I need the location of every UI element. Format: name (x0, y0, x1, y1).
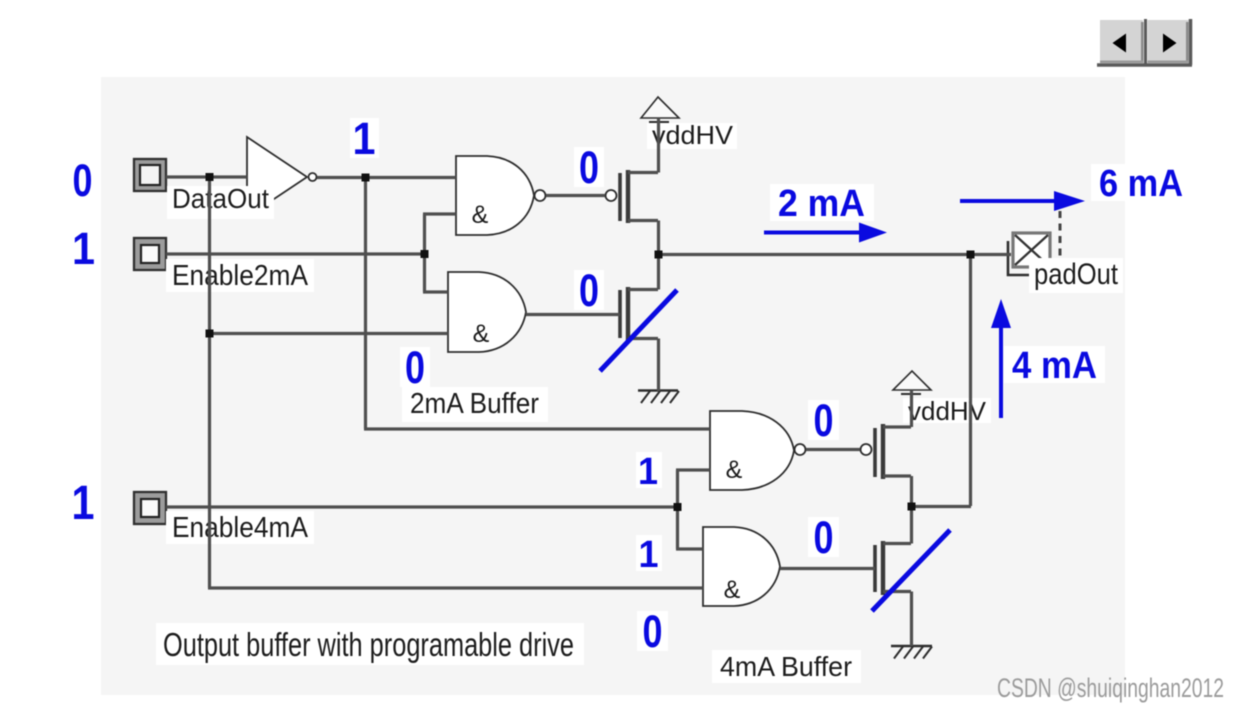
wire main output to padOut (657, 253, 1011, 256)
svg-text:0: 0 (73, 155, 93, 206)
svg-text:1: 1 (638, 451, 658, 493)
ground symbol 1 (638, 391, 679, 404)
svg-text:vddHV: vddHV (652, 120, 734, 150)
wire feed to and U5 lower input (208, 586, 703, 589)
inverter U1 (247, 137, 307, 217)
wire vertical net x209 (208, 178, 211, 589)
pmos Q3 (873, 428, 877, 477)
svg-text:2mA Buffer: 2mA Buffer (410, 388, 539, 420)
pmos Q1 gate bubble (606, 190, 617, 201)
label Enable2mA (166, 259, 314, 292)
wire data feed to nand U4 (364, 427, 710, 430)
wire vertical to 4mA node (969, 254, 972, 506)
svg-text:Enable2mA: Enable2mA (172, 260, 309, 292)
svg-text:1: 1 (353, 113, 376, 164)
svg-text:DataOut: DataOut (172, 183, 269, 214)
junction node on DataOut wire x209 (206, 173, 214, 181)
label DataOut (167, 183, 274, 219)
svg-text:&: & (726, 456, 743, 484)
junction node inverter out x365 (362, 174, 370, 182)
logic value 0 at nand U4 output (808, 395, 839, 446)
svg-text:Output buffer with programable: Output buffer with programable drive (163, 626, 574, 663)
schematic panel background (101, 77, 1125, 695)
label caption Output buffer with programamable drive (156, 623, 584, 665)
wire nand U4 output to pmos Q3 (806, 448, 860, 451)
input pad Enable2mA (134, 238, 166, 270)
label 4mA Buffer (712, 650, 861, 683)
and gate U5 (703, 527, 780, 606)
junction node Enable4mA x677 (674, 503, 682, 511)
logic value 1 at nand U4 lower input (636, 451, 662, 493)
wire vddHV1 stem (657, 118, 660, 173)
wire nand U2 lower input (423, 212, 456, 215)
wire nmos Q2 drain lead (628, 254, 659, 290)
wire inverter output to nand U2 (317, 176, 456, 179)
svg-text:vddHV: vddHV (908, 396, 987, 426)
svg-text:4mA Buffer: 4mA Buffer (720, 651, 852, 682)
wire and U3 upper input (423, 290, 448, 293)
logic value 0 at nand U2 output (574, 142, 604, 193)
junction node Enable2mA x424 (421, 250, 429, 258)
wire nand U4 lower input (676, 468, 710, 471)
vddHV supply symbol 1 (641, 97, 679, 118)
svg-text:0: 0 (579, 142, 599, 193)
wire vertical net x424 (423, 214, 426, 292)
logic value 1 at inverter output (350, 113, 379, 164)
svg-text:&: & (724, 576, 741, 604)
nav button divider (1144, 19, 1147, 66)
current arrow 2 mA (764, 223, 887, 243)
wire nmos Q4 drain lead (883, 506, 912, 544)
nmos Q2 (618, 290, 622, 338)
input pad Enable4mA (134, 492, 166, 524)
svg-text:&: & (473, 320, 490, 348)
svg-text:4 mA: 4 mA (1012, 345, 1097, 387)
enable slash on nmos Q2 (600, 290, 677, 371)
junction node 4mA output (908, 503, 916, 511)
input pad DataOut (134, 159, 166, 191)
junction node x209 and U3 feed (206, 330, 214, 338)
logic value 0 at nmos Q4 gate (808, 512, 839, 563)
wire vertical net x677 (676, 470, 679, 549)
wire pmos Q1 drain lead (628, 221, 659, 255)
current label 2 mA (770, 183, 874, 225)
label 2mA Buffer (402, 387, 548, 422)
svg-text:0: 0 (405, 342, 425, 393)
wire feed to and U3 lower input (208, 332, 448, 335)
wire nand U2 output to pmos Q1 (546, 194, 605, 197)
wire Enable4mA (166, 505, 677, 508)
svg-text:padOut: padOut (1034, 258, 1119, 291)
dashed stub above padOut (1059, 211, 1062, 258)
svg-text:1: 1 (72, 223, 95, 274)
logic value 0 below and U3 (400, 342, 430, 393)
svg-text:0: 0 (579, 265, 599, 316)
junction node at padOut branch (967, 251, 975, 259)
vddHV supply symbol 2 (893, 371, 931, 390)
nav button back (1100, 20, 1144, 63)
svg-text:CSDN @shuiqinghan2012: CSDN @shuiqinghan2012 (997, 673, 1224, 703)
svg-text:1: 1 (72, 477, 95, 530)
current arrow 6 mA (960, 191, 1085, 211)
nand gate U4 (710, 411, 794, 490)
nand gate U2 (456, 156, 534, 235)
nav button forward (1148, 20, 1189, 63)
ground symbol 2 (891, 646, 932, 659)
wire and U5 upper input (676, 547, 703, 550)
enable slash on nmos Q4 (872, 530, 950, 611)
svg-text:&: & (472, 201, 489, 229)
logic value 1 at and U5 upper input (636, 534, 662, 576)
wire DataOut pad to inverter (166, 175, 247, 178)
svg-text:2 mA: 2 mA (778, 183, 865, 225)
logic value 0 at nmos Q2 gate (574, 265, 604, 316)
inverter U1 output bubble (309, 173, 317, 181)
nav buttons shadow (1097, 19, 1192, 65)
junction node 2mA output (655, 251, 663, 259)
svg-text:Enable4mA: Enable4mA (172, 512, 309, 544)
wire and U5 output to nmos Q4 (780, 567, 875, 570)
wire vddHV2 stem (883, 390, 912, 427)
and gate U3 (448, 272, 526, 352)
label padOut (1029, 258, 1123, 293)
label Enable4mA (166, 511, 314, 544)
pmos Q1 (618, 173, 622, 221)
output pad padOut (1008, 233, 1050, 275)
svg-text:6 mA: 6 mA (1099, 163, 1183, 205)
current label 6 mA (1091, 163, 1191, 205)
label vddHV 1 (647, 120, 737, 150)
wire Enable2mA (166, 252, 424, 255)
nmos Q4 (873, 545, 877, 592)
wire pmos Q1 source lead (628, 171, 658, 174)
svg-text:0: 0 (643, 606, 663, 657)
current arrow 4 mA (991, 299, 1011, 418)
nand U4 output bubble (795, 444, 806, 455)
svg-text:1: 1 (639, 534, 659, 576)
label vddHV 2 (903, 396, 991, 426)
svg-text:0: 0 (814, 512, 834, 563)
logic value 0 below and U5 (637, 606, 668, 657)
wire nmos Q4 source lead (883, 592, 912, 647)
wire and U3 output to nmos Q2 (526, 313, 620, 316)
current label 4 mA (1004, 345, 1105, 387)
wire 4mA node link (911, 505, 971, 508)
nand U2 output bubble (535, 190, 546, 201)
wire pmos Q3 drain lead (883, 476, 912, 506)
pmos Q3 gate bubble (861, 444, 872, 455)
svg-text:0: 0 (814, 395, 834, 446)
wire nmos Q2 source lead (628, 339, 659, 392)
wire vertical net data down (364, 178, 367, 430)
